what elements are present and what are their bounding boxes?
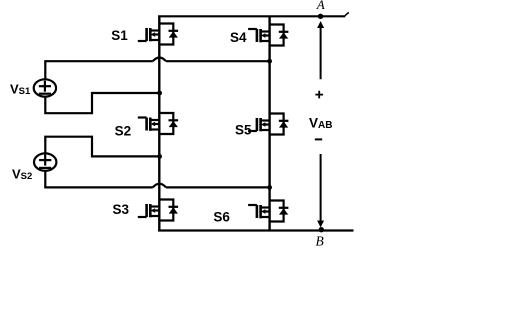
transistor S5 (NMOS with body diode, gate lead bottom): [248, 114, 288, 135]
transistor S4 (NMOS with body diode, gate lead top): [248, 25, 288, 46]
svg-text:S1: S1: [111, 28, 128, 43]
junction: VS2+ to left leg: [157, 154, 162, 159]
junction: VS2- to right leg: [267, 185, 272, 190]
wire: VS1 negative staircase to left leg junction: [45, 93, 160, 113]
wire: VS1+ run to right leg junction: [166, 60, 270, 62]
wire: left leg vertical (drain-source bus S1-S2-S3): [158, 16, 160, 230]
junction: VS1- to left leg: [157, 91, 162, 96]
svg-text:VAB: VAB: [309, 116, 332, 131]
svg-text:S3: S3: [113, 202, 130, 217]
VAB arrow pointing down toward B: [317, 154, 324, 228]
wire: right leg vertical (drain-source bus S4-S5-S6): [268, 16, 270, 230]
svg-text:A: A: [316, 0, 325, 12]
wire: top rail from left leg to terminal A: [158, 15, 345, 17]
wire: hop (jump) of VS1+ wire over left leg: [153, 58, 166, 62]
plus sign of VAB polarity: [315, 91, 323, 99]
voltage source VS1 (circle with + and -): [34, 79, 56, 96]
wire: bottom rail from left leg to terminal B: [158, 229, 353, 231]
svg-text:S2: S2: [115, 124, 132, 139]
svg-text:S6: S6: [213, 209, 230, 224]
wire: diagonal tick at right end of top rail: [345, 12, 349, 15]
transistor S1 (NMOS with body diode, gate lead bottom): [138, 24, 178, 45]
wire: VS1 positive lead up to horizontal run: [45, 61, 153, 79]
wire: VS2- run to right leg junction: [166, 186, 270, 188]
node B terminal dot: [319, 227, 324, 232]
transistor S3 (NMOS with body diode, gate lead bottom): [138, 200, 178, 221]
VAB arrow pointing up toward A: [317, 21, 324, 79]
svg-text:S5: S5: [235, 122, 252, 137]
node A terminal dot: [318, 14, 323, 19]
minus sign of VAB polarity: [315, 138, 322, 140]
junction: VS1+ to right leg: [267, 59, 272, 64]
svg-text:VS2: VS2: [12, 167, 32, 183]
wire: hop (jump) of VS2- wire over left leg: [153, 184, 166, 188]
voltage source VS2 (circle with + and -): [34, 153, 56, 170]
wire: VS2 positive staircase to left leg junction: [45, 137, 160, 157]
transistor S2 (NMOS with body diode, gate lead top): [138, 113, 178, 134]
svg-text:VS1: VS1: [10, 81, 31, 97]
svg-text:B: B: [316, 233, 324, 248]
svg-text:S4: S4: [230, 30, 247, 45]
wire: VS2 negative lead down to horizontal run: [45, 171, 153, 188]
transistor S6 (NMOS with body diode, gate lead top): [248, 201, 288, 222]
